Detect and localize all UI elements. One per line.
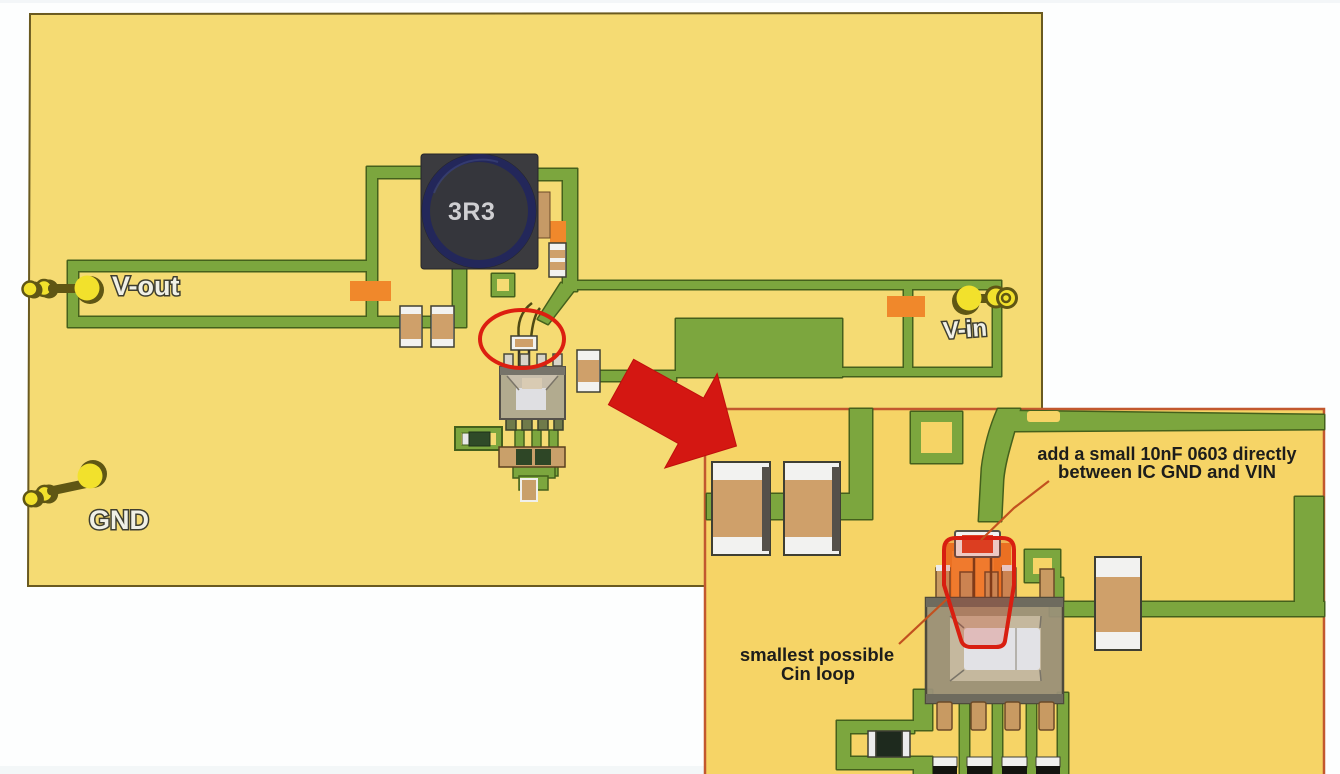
svg-text:between IC GND and VIN: between IC GND and VIN (1058, 461, 1276, 482)
svg-text:V-out: V-out (112, 271, 180, 301)
svg-text:Cin loop: Cin loop (781, 663, 855, 684)
svg-text:GND: GND (89, 505, 149, 535)
svg-text:smallest possible: smallest possible (740, 644, 894, 665)
svg-text:V-in: V-in (942, 315, 988, 345)
svg-text:3R3: 3R3 (448, 198, 495, 226)
